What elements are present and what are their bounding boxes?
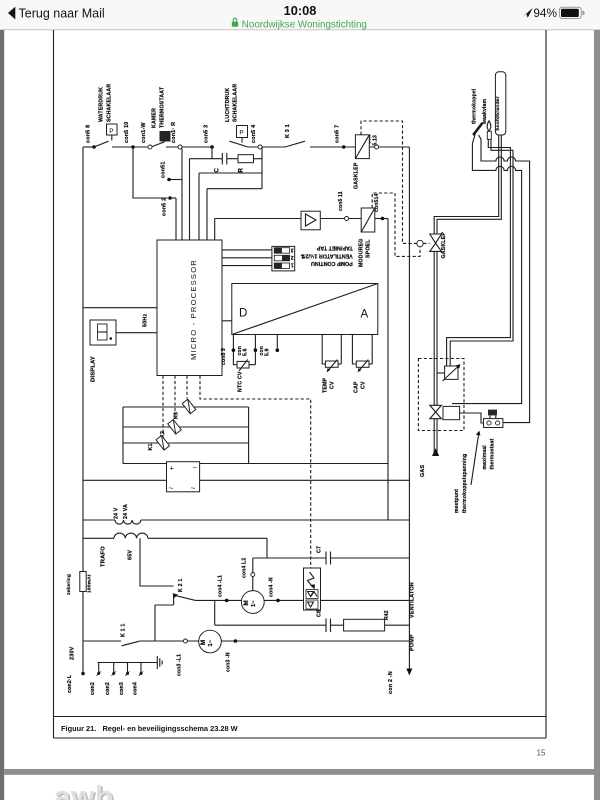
svg-text:con5 4: con5 4	[251, 125, 257, 143]
svg-text:5.9: 5.9	[265, 348, 271, 356]
svg-text:con3 -L1: con3 -L1	[177, 654, 183, 676]
svg-text:24 VA: 24 VA	[123, 504, 129, 519]
svg-text:KAMER: KAMER	[151, 108, 157, 128]
svg-text:TRAFO: TRAFO	[100, 546, 106, 567]
svg-text:24 V: 24 V	[114, 507, 120, 519]
svg-text:10:08: 10:08	[284, 3, 317, 18]
svg-text:con4 -L1: con4 -L1	[218, 575, 224, 597]
svg-text:SCHAKELAAR: SCHAKELAAR	[106, 84, 112, 122]
svg-text:con5 8: con5 8	[86, 125, 92, 143]
svg-text:94%: 94%	[533, 6, 557, 20]
svg-text:K 2 1: K 2 1	[178, 579, 184, 592]
svg-text:K 1 1: K 1 1	[121, 624, 127, 637]
svg-text:hoofdbrander: hoofdbrander	[495, 96, 501, 130]
svg-text:TAP/NIET TAP: TAP/NIET TAP	[316, 245, 352, 251]
svg-text:meetpunt: meetpunt	[454, 489, 460, 513]
svg-text:C8: C8	[317, 610, 323, 617]
svg-text:SPOEL: SPOEL	[366, 239, 372, 258]
svg-text:MODUREG: MODUREG	[358, 239, 364, 268]
svg-text:P: P	[239, 130, 243, 137]
svg-text:con5 7: con5 7	[335, 125, 341, 143]
svg-text:con3 -N: con3 -N	[226, 652, 232, 672]
svg-text:C7: C7	[317, 546, 323, 553]
svg-text:K 3 1: K 3 1	[285, 124, 291, 138]
svg-text:con2·L: con2·L	[67, 674, 73, 693]
svg-text:con5 3: con5 3	[204, 125, 210, 143]
svg-text:zekering: zekering	[66, 574, 72, 595]
svg-text:160mAt: 160mAt	[86, 574, 92, 593]
svg-text:A: A	[361, 309, 369, 321]
svg-text:POMP: POMP	[410, 634, 416, 651]
svg-text:con1· R: con1· R	[171, 122, 177, 143]
svg-text:con5 2: con5 2	[161, 198, 167, 216]
svg-text:LUCHTDRUK: LUCHTDRUK	[225, 88, 231, 122]
svg-text:3: 3	[291, 246, 294, 252]
svg-text:M: M	[200, 640, 207, 645]
svg-text:con514: con514	[374, 194, 380, 212]
svg-text:+: +	[170, 464, 175, 473]
svg-text:GASKLEP: GASKLEP	[441, 232, 447, 259]
svg-text:con1-W: con1-W	[141, 122, 147, 143]
svg-text:con4: con4	[133, 682, 139, 695]
svg-text:thermostaat: thermostaat	[490, 439, 496, 470]
svg-text:CV: CV	[360, 381, 366, 389]
svg-text:5.6: 5.6	[243, 348, 249, 356]
svg-text:−: −	[193, 463, 198, 472]
svg-text:1~: 1~	[208, 639, 214, 646]
svg-text:1~: 1~	[251, 600, 257, 607]
svg-text:VENTILATOR: VENTILATOR	[410, 582, 416, 618]
svg-text:SCHAKELAAR: SCHAKELAAR	[233, 84, 239, 122]
svg-text:230V: 230V	[70, 646, 76, 660]
svg-text:awb: awb	[54, 781, 114, 800]
svg-text:con5 5: con5 5	[221, 348, 227, 365]
svg-text:con4 -N: con4 -N	[269, 577, 275, 597]
svg-text:M: M	[243, 600, 250, 605]
svg-text:C: C	[214, 168, 220, 173]
svg-text:GASKLEP: GASKLEP	[353, 162, 359, 189]
svg-text:5.13: 5.13	[373, 135, 379, 146]
svg-text:R42: R42	[384, 610, 390, 620]
svg-text:con51: con51	[160, 161, 166, 178]
svg-text:NTC CV: NTC CV	[238, 371, 244, 392]
svg-text:CAP: CAP	[354, 381, 360, 393]
svg-text:50Hz: 50Hz	[143, 314, 149, 327]
svg-text:2: 2	[291, 254, 294, 260]
svg-text:~: ~	[169, 483, 174, 493]
svg-text:Noordwijkse Woningstichting: Noordwijkse Woningstichting	[242, 19, 367, 30]
svg-text:15: 15	[537, 749, 546, 758]
svg-text:GAS: GAS	[420, 465, 426, 477]
svg-text:con2: con2	[90, 682, 96, 695]
svg-text:CV: CV	[329, 381, 335, 389]
svg-text:P: P	[109, 128, 113, 135]
svg-text:VENTILATOR 1½/2⇅: VENTILATOR 1½/2⇅	[300, 252, 352, 259]
svg-text:thermokoppel: thermokoppel	[471, 88, 477, 124]
svg-text:TEMP: TEMP	[323, 377, 329, 393]
svg-text:Figuur 21. Regel- en beveili: Figuur 21. Regel- en beveiligingsschema …	[61, 724, 238, 733]
svg-text:waakvlam: waakvlam	[482, 98, 488, 125]
svg-text:con5 11: con5 11	[338, 191, 344, 211]
svg-text:~: ~	[191, 483, 196, 493]
svg-text:POMP CONTINU: POMP CONTINU	[311, 260, 353, 266]
svg-text:con3: con3	[119, 682, 125, 695]
svg-text:D: D	[239, 308, 247, 320]
svg-text:WATERDRUK: WATERDRUK	[99, 87, 105, 122]
svg-text:con2: con2	[105, 682, 111, 695]
svg-text:MICRO - PROCESSOR: MICRO - PROCESSOR	[189, 259, 198, 360]
svg-text:thermokoppelspanning: thermokoppelspanning	[462, 454, 468, 513]
svg-text:con 2 -N: con 2 -N	[388, 671, 394, 694]
svg-text:65V: 65V	[128, 550, 134, 560]
svg-text:K3: K3	[174, 412, 180, 419]
svg-text:maximaal: maximaal	[482, 445, 488, 470]
svg-text:R: R	[238, 168, 244, 173]
svg-text:1: 1	[291, 262, 294, 268]
svg-text:DISPLAY: DISPLAY	[90, 356, 96, 382]
svg-text:K1: K1	[148, 443, 154, 450]
svg-text:con5 10: con5 10	[124, 122, 130, 143]
svg-text:THERMOSTAAT: THERMOSTAAT	[159, 86, 165, 128]
svg-text:Terug naar Mail: Terug naar Mail	[19, 6, 105, 20]
svg-text:con4 L2: con4 L2	[242, 558, 248, 578]
